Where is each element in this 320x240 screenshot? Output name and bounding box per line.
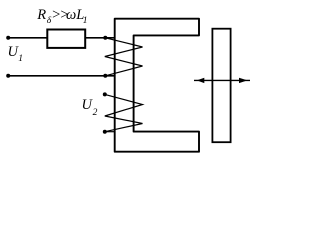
primary winding L1 (zigzag)	[105, 38, 143, 76]
wire stub secondary bottom	[105, 131, 116, 133]
label U1	[8, 44, 24, 64]
wire resistor to winding	[85, 37, 116, 39]
node dot U1 top	[6, 36, 10, 40]
svg-text:2: 2	[93, 108, 98, 118]
double-headed arrow (air-gap motion)	[194, 78, 250, 83]
svg-text:1: 1	[18, 54, 23, 64]
node dot secondary bottom	[103, 130, 107, 134]
node dot primary top	[103, 36, 107, 40]
node dot primary bottom	[103, 74, 107, 78]
label U2	[82, 97, 98, 118]
svg-text:ωL: ωL	[66, 7, 84, 23]
node dot U1 bottom	[6, 74, 10, 78]
node dot secondary top	[103, 92, 107, 96]
wire top-left (U1 top terminal to resistor)	[8, 37, 47, 39]
svg-text:1: 1	[83, 16, 88, 26]
core (C-shaped magnetic core)	[115, 19, 199, 152]
label Rδ>>ωL1	[36, 7, 87, 26]
secondary winding (zigzag)	[105, 94, 143, 131]
armature plate	[212, 29, 230, 143]
svg-text:R: R	[36, 7, 46, 23]
resistor Rδ	[47, 30, 85, 48]
wire bottom (U1 bottom terminal to winding)	[8, 75, 115, 77]
